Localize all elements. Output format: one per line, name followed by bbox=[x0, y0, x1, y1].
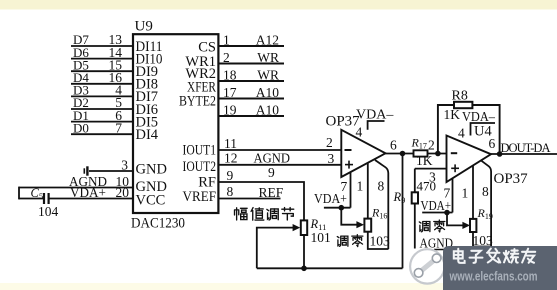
op-amp U3 pin number 6 bbox=[390, 137, 397, 152]
svg-text:A10: A10 bbox=[256, 102, 279, 117]
op-amp U4 pin number 2 bbox=[428, 138, 435, 153]
R17 reference label bbox=[411, 136, 427, 151]
svg-text:R8: R8 bbox=[452, 89, 468, 104]
svg-text:7: 7 bbox=[115, 120, 122, 135]
svg-text:IOUT2: IOUT2 bbox=[183, 159, 217, 175]
capacitor C5 label bbox=[31, 186, 44, 201]
svg-text:20: 20 bbox=[116, 185, 130, 200]
svg-text:8: 8 bbox=[227, 184, 234, 199]
svg-text:D0: D0 bbox=[73, 120, 89, 135]
svg-text:11: 11 bbox=[224, 136, 237, 151]
op-amp U3 pin number 4 bbox=[356, 125, 363, 140]
svg-text:2: 2 bbox=[326, 135, 333, 150]
chip pin names: GND GND VCC (left bottom) bbox=[136, 162, 167, 209]
R16 bottom lead and U-link to pin8 bbox=[368, 232, 389, 249]
chip pin names: DI11..DI4 (left) bbox=[136, 39, 163, 143]
op-amp U3 output wire to R17 bbox=[386, 153, 447, 155]
data bus wire D3 pin4 bbox=[71, 83, 133, 98]
svg-text:GND: GND bbox=[136, 162, 167, 178]
svg-text:8: 8 bbox=[378, 179, 385, 194]
svg-text:2: 2 bbox=[223, 50, 230, 65]
R19 bottom lead and U-link to pin8 bbox=[473, 232, 491, 247]
op-amp U3 pin8 curve down bbox=[375, 160, 388, 249]
zero-adjust label for U4 (tiao ling) bbox=[419, 220, 445, 232]
zero-adjust label for U3 (tiao ling) bbox=[337, 235, 363, 247]
AGND pin10 wire bbox=[19, 174, 133, 189]
GND pin3 wire bbox=[89, 157, 133, 172]
R19 value 103 bbox=[473, 233, 494, 248]
svg-text:WR: WR bbox=[257, 67, 279, 82]
svg-text:VDA–: VDA– bbox=[462, 109, 495, 124]
R11 reference label bbox=[310, 217, 327, 232]
op-amp U3 minus symbol bbox=[345, 149, 352, 151]
R16 value 103 bbox=[370, 234, 391, 249]
R9 reference label bbox=[393, 190, 406, 205]
data bus wire D1 pin6 bbox=[71, 108, 133, 123]
svg-text:U9: U9 bbox=[135, 19, 153, 35]
resistor 470 top lead bbox=[414, 169, 416, 193]
svg-text:12: 12 bbox=[224, 151, 238, 166]
junction dot at U4 output bbox=[497, 151, 503, 157]
feedback resistor R8 loop wire bbox=[438, 105, 500, 154]
op-amp U4 plus symbol bbox=[451, 164, 459, 172]
op-amp U3 (first OP37) triangle bbox=[341, 130, 385, 177]
svg-text:2: 2 bbox=[428, 138, 435, 153]
svg-text:A10: A10 bbox=[256, 85, 279, 100]
svg-text:3: 3 bbox=[328, 151, 335, 166]
svg-text:WR: WR bbox=[257, 50, 279, 65]
watermark url text bbox=[449, 269, 538, 284]
pin3 terminator symbol bbox=[84, 166, 87, 175]
resistor R8 body bbox=[454, 102, 472, 108]
svg-text:9: 9 bbox=[227, 168, 234, 183]
svg-text:www.elecfans.com: www.elecfans.com bbox=[449, 269, 538, 284]
op-amp U4 pin number 4 bbox=[458, 125, 465, 140]
op-amp U3 pin1 line bbox=[357, 163, 368, 219]
control wire BYTE2 pin19 to A10 bbox=[218, 102, 284, 117]
svg-text:103: 103 bbox=[370, 234, 391, 249]
op-amp U4 pin8 curve down bbox=[481, 160, 491, 246]
capacitor C5 plates bbox=[44, 193, 49, 204]
svg-text:U4: U4 bbox=[474, 124, 492, 140]
junction dot on U4 VDA+ wire bbox=[444, 210, 450, 216]
data bus wire D7 pin13 bbox=[71, 32, 133, 47]
top yellow banner strip bbox=[0, 0, 557, 10]
data bus wire D5 pin15 bbox=[71, 57, 133, 72]
R16 reference label bbox=[371, 206, 387, 221]
svg-text:AGND: AGND bbox=[254, 151, 291, 166]
op-amp U4 plus input wire bbox=[415, 168, 447, 170]
svg-text:VDA+: VDA+ bbox=[70, 185, 106, 200]
bottom feedback rail bbox=[257, 267, 403, 269]
svg-text:6: 6 bbox=[390, 137, 397, 152]
svg-text:101: 101 bbox=[311, 230, 331, 245]
svg-text:VDA–: VDA– bbox=[356, 108, 394, 123]
svg-text:8: 8 bbox=[482, 184, 489, 199]
op-amp U4 pin number 6 bbox=[489, 136, 496, 151]
IOUT2 pin12 wire, AGND net bbox=[218, 151, 341, 166]
svg-text:4: 4 bbox=[458, 125, 465, 140]
svg-text:VREF: VREF bbox=[183, 189, 217, 205]
svg-text:RF: RF bbox=[198, 175, 216, 191]
op-amp U3 VDA- supply stub pin4 bbox=[356, 108, 394, 130]
svg-text:17: 17 bbox=[223, 85, 237, 100]
bottom yellow banner strip bbox=[0, 283, 557, 290]
junction dot at U4 inverting input node bbox=[435, 151, 441, 157]
RF pin9 wire bbox=[218, 165, 304, 221]
svg-text:18: 18 bbox=[223, 67, 237, 82]
chip pin names: CS WR1 WR2 XFER BYTE2 (right top) bbox=[179, 40, 216, 110]
R19 reference label bbox=[477, 206, 493, 221]
resistor 470 body bbox=[412, 192, 418, 203]
R17 value 1K bbox=[416, 153, 433, 168]
VREF pin8 wire, REF net bbox=[218, 184, 283, 200]
svg-text:1: 1 bbox=[462, 186, 469, 201]
R11 value 101 bbox=[311, 230, 331, 245]
amplitude adjust label (fu zhi tiao jie) bbox=[235, 208, 294, 221]
svg-text:104: 104 bbox=[38, 204, 59, 219]
R8 reference label bbox=[452, 89, 468, 104]
potentiometer R11 body bbox=[301, 220, 307, 235]
svg-text:1: 1 bbox=[357, 179, 364, 194]
op-amp U3 label OP37 bbox=[326, 114, 361, 130]
op-amp U4 minus symbol bbox=[451, 152, 457, 154]
VDA+ supply wire for U4 pin7 bbox=[421, 198, 453, 213]
svg-text:BYTE2: BYTE2 bbox=[179, 93, 216, 109]
op-amp U3 pin number 3 bbox=[328, 151, 335, 166]
R16 wiper feed from VDA+ with arrow bbox=[341, 208, 364, 229]
svg-text:VDA+: VDA+ bbox=[314, 191, 347, 206]
op-amp U4 pin7 line bbox=[444, 178, 453, 212]
U9 reference label bbox=[135, 19, 153, 35]
data bus wire D6 pin14 bbox=[71, 45, 133, 60]
data bus wire D4 pin16 bbox=[71, 70, 133, 85]
control wire WR2 pin18 to WR bbox=[218, 67, 284, 82]
svg-text:470: 470 bbox=[417, 179, 437, 194]
470 value label bbox=[417, 179, 437, 194]
svg-text:3: 3 bbox=[121, 157, 128, 172]
svg-text:OP37: OP37 bbox=[326, 114, 361, 130]
op-amp U4 reference label U4 bbox=[474, 124, 492, 140]
watermark dark panel bbox=[443, 246, 557, 290]
capacitor value 104 bbox=[38, 204, 59, 219]
op-amp U4 VDA- supply stub pin4 bbox=[462, 109, 495, 136]
VCC pin20 wire with VDA+ label bbox=[19, 185, 133, 200]
R19 wiper feed from VDA+ with arrow bbox=[447, 213, 470, 230]
svg-text:OP37: OP37 bbox=[494, 171, 529, 187]
svg-text:19: 19 bbox=[223, 102, 237, 117]
op-amp U3 pin number 2 bbox=[326, 135, 333, 150]
op-amp U3 plus symbol bbox=[345, 161, 353, 169]
watermark scissors-circle logo bbox=[410, 249, 444, 283]
svg-text:9: 9 bbox=[268, 165, 275, 180]
R11 wiper arm with arrow bbox=[257, 224, 300, 268]
left tie vertical joining pin10 and pin20 wires bbox=[18, 187, 20, 200]
watermark brand text dian zi fa shao you bbox=[454, 249, 535, 263]
DAC U9 chip body bbox=[133, 34, 218, 213]
resistor 470 bottom lead to AGND bbox=[414, 204, 416, 249]
control wire WR1 pin2 to WR bbox=[218, 50, 284, 65]
data bus wire D2 pin5 bbox=[71, 95, 133, 110]
op-amp U4 label OP37 bbox=[494, 171, 529, 187]
op-amp U4 pin1 line bbox=[462, 166, 474, 219]
AGND label under 470 bbox=[420, 236, 454, 251]
chip pin names: IOUT1 IOUT2 RF VREF (right bottom) bbox=[183, 143, 217, 206]
svg-text:IOUT1: IOUT1 bbox=[183, 143, 217, 159]
svg-text:DOUT-DA: DOUT-DA bbox=[501, 141, 551, 155]
VDA+ supply wire for U3 pin7 bbox=[314, 191, 351, 208]
R9 wire from output node to bottom rail bbox=[402, 154, 404, 269]
op-amp U4 pin number 3 bbox=[429, 170, 436, 185]
DOUT-DA net label bbox=[501, 141, 551, 155]
control wire CS pin1 to A12 bbox=[218, 32, 284, 47]
resistor R17 body bbox=[414, 150, 428, 156]
svg-text:REF: REF bbox=[259, 185, 284, 200]
svg-text:103: 103 bbox=[473, 233, 494, 248]
svg-text:VCC: VCC bbox=[136, 193, 166, 209]
op-amp U4 (second OP37) triangle bbox=[447, 136, 492, 183]
svg-text:1: 1 bbox=[223, 32, 230, 47]
potentiometer R16 body bbox=[364, 219, 371, 232]
svg-text:1K: 1K bbox=[416, 153, 433, 168]
R11 bottom lead bbox=[303, 235, 305, 268]
svg-text:DI4: DI4 bbox=[136, 127, 159, 143]
DAC1230 part label bbox=[131, 216, 185, 232]
junction dot on U3 VDA+ wire bbox=[339, 205, 345, 211]
svg-text:A12: A12 bbox=[256, 32, 279, 47]
R8 value 1K bbox=[444, 107, 461, 122]
data bus wire D0 pin7 bbox=[71, 120, 133, 135]
op-amp U3 pin7 line bbox=[341, 172, 351, 208]
junction dot at U3 output bbox=[400, 151, 406, 157]
svg-text:1K: 1K bbox=[444, 107, 461, 122]
potentiometer R19 body bbox=[470, 219, 476, 232]
IOUT1 pin11 wire to op-amp U3 inverting input bbox=[218, 136, 341, 151]
op-amp U4 output wire DOUT-DA bbox=[491, 153, 557, 155]
control wire XFER pin17 to A10 bbox=[218, 85, 284, 100]
svg-text:DAC1230: DAC1230 bbox=[131, 216, 185, 232]
junction dot on bottom rail bbox=[301, 266, 307, 272]
